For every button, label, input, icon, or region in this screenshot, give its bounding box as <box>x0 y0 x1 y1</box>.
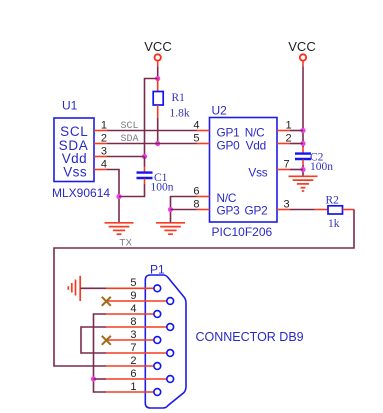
U2 pin 1 stub <box>277 130 290 132</box>
svg-text:SCL: SCL <box>60 124 88 139</box>
svg-text:3: 3 <box>284 199 290 211</box>
junction pin8 branch <box>168 207 173 212</box>
resistor R2 left pin <box>315 209 329 211</box>
svg-text:R2: R2 <box>326 195 340 207</box>
power symbol VCC right circle <box>300 54 306 60</box>
chassis ground at pin 5 <box>68 276 80 301</box>
P1 pin 2 stub <box>106 365 154 367</box>
svg-text:5: 5 <box>130 277 136 289</box>
no-connect X pin 9 <box>102 297 111 306</box>
P1 pin 8 stub <box>106 326 167 328</box>
ground symbol under U1 <box>105 223 134 234</box>
wire net SDA <box>107 143 197 145</box>
svg-text:2: 2 <box>130 355 136 367</box>
svg-text:4: 4 <box>130 303 136 315</box>
resistor R1 bottom pin <box>157 105 159 118</box>
power symbol VCC left circle <box>155 54 161 60</box>
U2 pin 6 stub <box>197 196 210 198</box>
svg-text:4: 4 <box>193 120 199 132</box>
wire loop pin8-pin7 <box>81 327 106 353</box>
U2 pin 8 stub <box>197 209 210 211</box>
junction VCC-pin2 <box>300 141 305 146</box>
wire pin7 to rail <box>290 169 303 171</box>
U1 pin 1 stub <box>94 130 107 132</box>
junction at VCC branch <box>155 76 160 81</box>
connector P1 DB9 body <box>145 275 186 408</box>
svg-text:GP3: GP3 <box>217 204 241 218</box>
no-connect X pin 3 <box>102 336 111 345</box>
wire net SCL <box>107 130 197 132</box>
junction VCC-pin1 <box>300 128 305 133</box>
svg-text:7: 7 <box>130 342 136 354</box>
P1 pad circle pin4 <box>154 311 161 318</box>
wire U2 pin8 to junction <box>171 209 197 211</box>
P1 pin 5 stub <box>106 287 154 289</box>
svg-text:MLX90614: MLX90614 <box>52 186 110 200</box>
P1 pad circle pin2 <box>154 363 161 370</box>
P1 pad circle pin5 <box>154 285 161 292</box>
svg-text:1: 1 <box>101 120 107 132</box>
wire pin1 to VCC rail <box>290 130 303 132</box>
junction Vss-C1 <box>116 194 121 199</box>
svg-text:3: 3 <box>101 146 107 158</box>
U2 pin 3 stub <box>277 209 290 211</box>
svg-text:8: 8 <box>193 199 199 211</box>
svg-text:GP1: GP1 <box>217 125 240 139</box>
U2 pin 2 stub <box>277 143 290 145</box>
svg-text:Vss: Vss <box>248 165 267 179</box>
svg-text:SCL: SCL <box>121 121 139 132</box>
svg-text:VCC: VCC <box>288 39 315 54</box>
wire pin6 branch <box>94 378 107 380</box>
U1 pin 3 stub <box>94 156 107 158</box>
svg-text:CONNECTOR DB9: CONNECTOR DB9 <box>196 330 304 344</box>
capacitor C1 top lead <box>144 167 146 173</box>
P1 pad circle pin3 <box>154 337 161 344</box>
svg-text:VCC: VCC <box>144 39 171 54</box>
resistor R2 body <box>328 206 343 214</box>
resistor R2 right pin <box>343 209 355 211</box>
svg-text:1k: 1k <box>328 218 340 230</box>
svg-text:6: 6 <box>130 368 136 380</box>
svg-text:100n: 100n <box>310 161 333 173</box>
wire C1 bottom branch <box>119 184 145 197</box>
capacitor C2 bottom lead <box>302 160 304 166</box>
U2 pin 4 stub <box>197 130 210 132</box>
P1 pad circle pin1 <box>154 389 161 396</box>
wire pin2 to VCC rail <box>290 143 303 145</box>
wire U2 pin6 to ground <box>171 197 197 223</box>
U2 pin 7 stub <box>277 169 290 171</box>
P1 pin 7 stub <box>106 352 167 354</box>
svg-text:GP2: GP2 <box>244 204 267 218</box>
svg-text:U1: U1 <box>62 99 78 113</box>
wire VCC right down to C2 <box>302 61 304 66</box>
svg-text:2: 2 <box>101 133 107 145</box>
ground symbol under C2 <box>289 176 318 191</box>
capacitor C1 bottom lead <box>144 179 146 185</box>
svg-text:R1: R1 <box>172 92 186 104</box>
capacitor C1 plates <box>137 173 153 178</box>
junction Vss pin7 <box>300 167 305 172</box>
wire GP2 to R2 <box>290 209 315 211</box>
svg-text:1.8k: 1.8k <box>170 108 190 120</box>
P1 pin 3 stub <box>106 339 154 341</box>
wire Vdd junction down to C1 <box>144 157 146 167</box>
svg-text:5: 5 <box>193 133 199 145</box>
U1 pin 4 stub <box>94 169 107 171</box>
junction Vdd node <box>142 154 147 159</box>
junction pin6 <box>91 376 96 381</box>
P1 pin 9 stub <box>106 300 167 302</box>
resistor R1 body <box>153 92 163 106</box>
svg-text:GP0: GP0 <box>217 138 241 152</box>
svg-text:N/C: N/C <box>245 125 265 139</box>
svg-text:SDA: SDA <box>121 134 139 145</box>
P1 pin 6 stub <box>106 378 167 380</box>
P1 pad circle pin6 <box>167 376 174 383</box>
svg-text:7: 7 <box>284 159 290 171</box>
svg-text:6: 6 <box>193 186 199 198</box>
op-amp U1 MLX90614 body <box>54 118 94 182</box>
wire loop pin4-pin6-pin1 <box>94 314 107 392</box>
svg-text:Vdd: Vdd <box>246 138 266 152</box>
U2 pin 5 stub <box>197 143 210 145</box>
U1 pin 2 stub <box>94 143 107 145</box>
svg-text:Vss: Vss <box>63 165 87 180</box>
wire VCC branch left and down to Vdd row <box>145 79 158 157</box>
svg-text:1: 1 <box>130 381 136 393</box>
ground symbol under C1 / U2 left pins <box>156 223 185 234</box>
wire C2 bottom to ground <box>302 165 304 176</box>
microcontroller U2 PIC10F206 body <box>210 118 278 223</box>
resistor R1 top pin <box>157 79 159 92</box>
P1 pin 4 stub <box>106 313 154 315</box>
wire VCC left down to junction <box>157 61 159 66</box>
capacitor C2 plates <box>295 154 311 159</box>
P1 pad circle pin8 <box>167 324 174 331</box>
junction R1-SDA <box>155 141 160 146</box>
P1 pad circle pin9 <box>167 298 174 305</box>
P1 pin 1 stub <box>106 391 154 393</box>
svg-text:8: 8 <box>130 316 136 328</box>
svg-text:3: 3 <box>130 329 136 341</box>
svg-text:PIC10F206: PIC10F206 <box>212 225 273 239</box>
P1 pad circle pin7 <box>167 350 174 357</box>
svg-text:U2: U2 <box>212 104 228 118</box>
wire R2 down across and to DB9 pin2 <box>54 210 354 367</box>
wire R1 to SDA net <box>157 118 159 144</box>
svg-text:9: 9 <box>130 290 136 302</box>
wire U1 Vss to ground <box>107 170 119 223</box>
svg-text:100n: 100n <box>151 182 174 194</box>
wire Vdd row <box>107 156 145 158</box>
wire chassis to pin5 <box>80 287 106 289</box>
svg-text:4: 4 <box>101 159 107 171</box>
capacitor C2 top lead <box>302 147 304 153</box>
